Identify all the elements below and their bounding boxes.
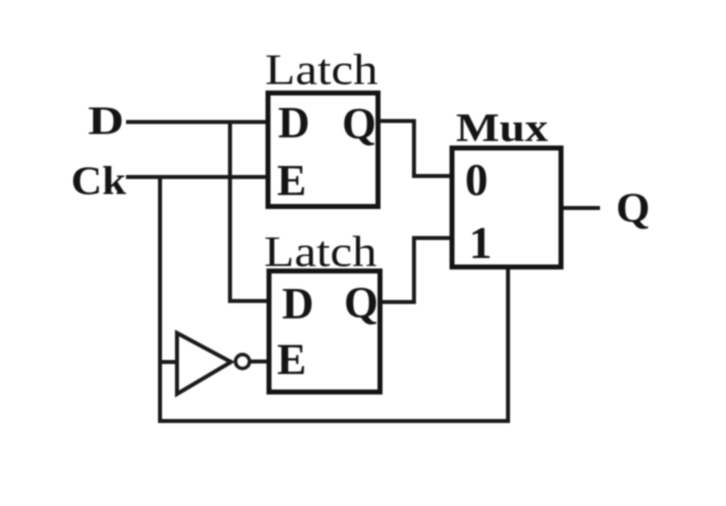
svg-text:0: 0 <box>465 154 488 205</box>
svg-text:Latch: Latch <box>265 47 378 94</box>
svg-text:1: 1 <box>469 217 492 268</box>
svg-text:Latch: Latch <box>264 229 377 276</box>
svg-text:E: E <box>277 335 306 384</box>
svg-text:Q: Q <box>344 278 378 327</box>
svg-text:D: D <box>278 98 310 147</box>
svg-text:Q: Q <box>342 99 376 148</box>
svg-text:Ck: Ck <box>71 158 127 203</box>
svg-text:D: D <box>88 98 124 143</box>
svg-text:D: D <box>282 279 314 328</box>
svg-text:Mux: Mux <box>456 105 548 150</box>
svg-text:Q: Q <box>616 186 650 232</box>
svg-text:E: E <box>277 156 306 205</box>
